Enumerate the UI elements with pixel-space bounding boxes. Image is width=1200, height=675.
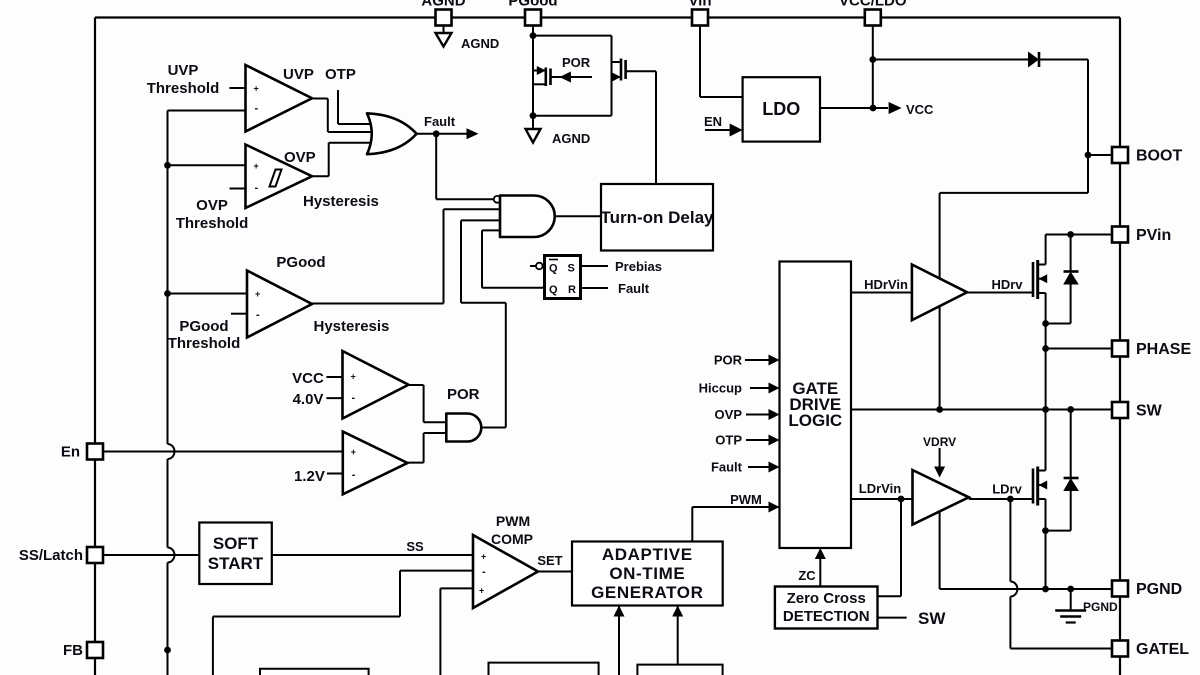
- svg-text:PGood: PGood: [179, 318, 228, 335]
- svg-text:FB: FB: [63, 642, 83, 659]
- svg-text:AGND: AGND: [421, 0, 465, 10]
- svg-text:POR: POR: [562, 55, 591, 70]
- svg-text:VDRV: VDRV: [923, 435, 956, 449]
- svg-text:+: +: [481, 552, 486, 562]
- svg-text:SW: SW: [918, 609, 946, 628]
- svg-text:Zero Cross: Zero Cross: [787, 590, 866, 607]
- svg-text:AGND: AGND: [461, 36, 499, 51]
- svg-text:SS/Latch: SS/Latch: [19, 547, 83, 564]
- svg-text:HDrv: HDrv: [991, 277, 1023, 292]
- svg-text:LOGIC: LOGIC: [788, 411, 842, 430]
- svg-text:Hiccup: Hiccup: [699, 381, 742, 396]
- svg-text:Fault: Fault: [618, 281, 650, 296]
- svg-text:Q: Q: [549, 263, 558, 275]
- svg-text:LDO: LDO: [762, 99, 800, 119]
- svg-text:SS: SS: [406, 539, 424, 554]
- svg-text:1.2V: 1.2V: [294, 468, 325, 485]
- svg-text:PVin: PVin: [1136, 227, 1171, 244]
- svg-text:En: En: [61, 444, 80, 461]
- svg-text:+: +: [479, 586, 484, 596]
- svg-text:Threshold: Threshold: [176, 215, 249, 232]
- svg-text:VCC: VCC: [292, 370, 324, 387]
- svg-text:SET: SET: [537, 553, 562, 568]
- svg-text:AGND: AGND: [552, 131, 590, 146]
- svg-text:Fault: Fault: [711, 460, 743, 475]
- svg-text:4.0V: 4.0V: [293, 391, 324, 408]
- svg-text:Threshold: Threshold: [147, 80, 220, 97]
- svg-text:Threshold: Threshold: [168, 335, 241, 352]
- svg-text:VCC: VCC: [906, 102, 934, 117]
- svg-text:PWM: PWM: [496, 513, 530, 529]
- svg-text:PGood: PGood: [276, 254, 325, 271]
- svg-text:+: +: [351, 372, 356, 382]
- svg-text:POR: POR: [447, 386, 480, 403]
- svg-text:HDrVin: HDrVin: [864, 277, 908, 292]
- svg-text:LDrv: LDrv: [992, 482, 1022, 497]
- svg-text:PHASE: PHASE: [1136, 341, 1191, 358]
- svg-text:UVP: UVP: [168, 62, 199, 79]
- svg-text:Q: Q: [549, 284, 558, 296]
- svg-text:S: S: [568, 263, 575, 275]
- svg-text:OVP: OVP: [196, 197, 228, 214]
- svg-text:-: -: [255, 103, 259, 115]
- svg-text:ZC: ZC: [798, 568, 816, 583]
- svg-text:COMP: COMP: [491, 531, 533, 547]
- svg-text:-: -: [256, 309, 260, 321]
- svg-text:OVP: OVP: [715, 407, 743, 422]
- svg-text:SW: SW: [1136, 403, 1163, 420]
- svg-text:+: +: [254, 161, 259, 171]
- svg-text:-: -: [255, 182, 259, 194]
- svg-text:Prebias: Prebias: [615, 259, 662, 274]
- svg-text:OTP: OTP: [715, 433, 742, 448]
- svg-text:+: +: [255, 289, 260, 299]
- svg-text:DETECTION: DETECTION: [783, 608, 870, 625]
- svg-text:GENERATOR: GENERATOR: [591, 583, 703, 602]
- svg-text:Vin: Vin: [688, 0, 711, 10]
- svg-text:Hysteresis: Hysteresis: [314, 318, 390, 335]
- svg-text:PGood: PGood: [508, 0, 557, 10]
- svg-text:UVP: UVP: [283, 66, 314, 83]
- svg-text:PGND: PGND: [1083, 600, 1118, 614]
- svg-text:BOOT: BOOT: [1136, 148, 1182, 165]
- svg-text:ON-TIME: ON-TIME: [609, 564, 685, 583]
- svg-text:EN: EN: [704, 114, 722, 129]
- svg-text:PGND: PGND: [1136, 581, 1182, 598]
- svg-text:SOFT: SOFT: [213, 534, 259, 553]
- svg-text:ADAPTIVE: ADAPTIVE: [602, 545, 693, 564]
- svg-text:Hysteresis: Hysteresis: [303, 193, 379, 210]
- svg-text:START: START: [208, 554, 264, 573]
- svg-text:GATEL: GATEL: [1136, 641, 1189, 658]
- svg-text:+: +: [351, 447, 356, 457]
- svg-text:Turn-on Delay: Turn-on Delay: [600, 208, 714, 227]
- svg-text:OVP: OVP: [284, 149, 316, 166]
- svg-text:-: -: [352, 392, 356, 404]
- svg-text:-: -: [482, 566, 486, 578]
- svg-text:POR: POR: [714, 353, 743, 368]
- svg-text:VCC/LDO: VCC/LDO: [839, 0, 907, 10]
- svg-text:R: R: [568, 284, 576, 296]
- svg-text:OTP: OTP: [325, 66, 356, 83]
- svg-text:PWM: PWM: [730, 492, 762, 507]
- svg-text:+: +: [254, 84, 259, 94]
- svg-text:-: -: [352, 469, 356, 481]
- svg-text:Fault: Fault: [424, 114, 456, 129]
- svg-text:LDrVin: LDrVin: [859, 481, 901, 496]
